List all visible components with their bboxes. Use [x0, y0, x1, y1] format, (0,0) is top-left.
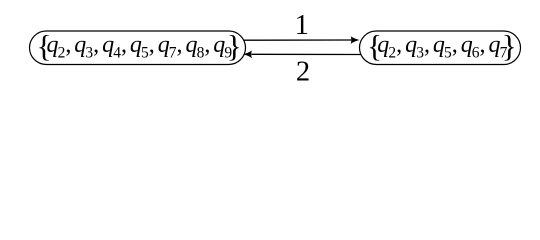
- arrowhead of arrow 2: [243, 50, 252, 58]
- transition arrow 2 (S2 to S1), wire: [252, 53, 361, 55]
- arrowhead of arrow 1: [351, 36, 360, 44]
- svg-text:2: 2: [296, 57, 310, 88]
- state node S1 {q2,q3,q4,q5,q7,q8,q9}: [30, 31, 246, 65]
- svg-text:1: 1: [295, 10, 309, 41]
- transition arrow 1 (S1 to S2), wire: [244, 39, 352, 41]
- state node S2 {q2,q3,q5,q6,q7}: [360, 31, 521, 65]
